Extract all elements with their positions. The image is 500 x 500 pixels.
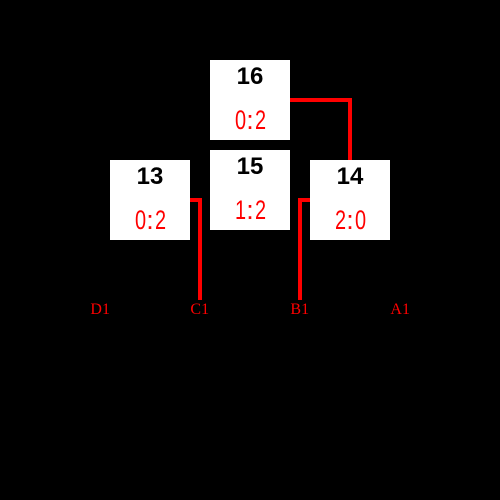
match number 16: [210, 65, 290, 89]
score 1:2 of match 15: [234, 197, 245, 224]
label A1: [390, 302, 410, 318]
connector: box13 right stub: [190, 198, 202, 202]
match box 15: [210, 150, 290, 230]
label D1: [90, 302, 110, 318]
connector: vertical down to C1: [198, 198, 202, 300]
connector: vertical down to B1: [298, 198, 302, 300]
match number 15: [210, 155, 290, 179]
connector: box14 left stub: [298, 198, 310, 202]
score 0:2 of match 16: [234, 107, 245, 134]
match box 14: [310, 160, 390, 240]
match number 13: [110, 165, 190, 189]
label B1: [290, 302, 309, 318]
connector: box16 right to box14 top, vertical: [348, 98, 352, 160]
match box 16 (final): [210, 60, 290, 140]
label C1: [190, 302, 209, 318]
score 2:0 of match 14: [334, 207, 345, 234]
match number 14: [310, 165, 390, 189]
match box 13: [110, 160, 190, 240]
connector: box16 right to box14 top, horizontal: [290, 98, 352, 102]
score 0:2 of match 13: [134, 207, 145, 234]
